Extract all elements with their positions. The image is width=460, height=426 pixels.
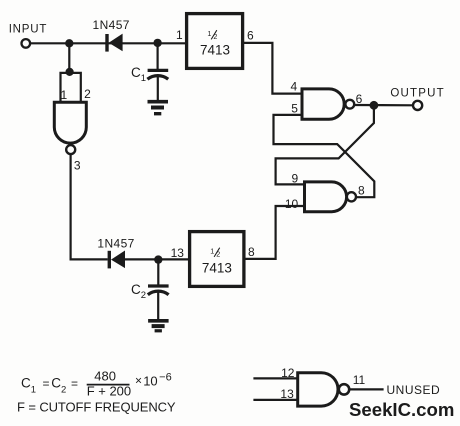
svg-text:8: 8 [248,245,255,259]
svg-text:6: 6 [356,92,363,106]
capacitor C1 [147,43,168,100]
OUTPUT terminal [413,101,422,110]
svg-text:7413: 7413 [200,42,230,57]
diode D2 1N457 [108,251,125,269]
formula C1 = C2 = 480/(F+200) x 10^-6 [21,368,172,398]
wire: input node down to U2a inputs [68,43,70,72]
svg-text:2: 2 [216,250,220,259]
Schmitt trigger U1a (1/2 7413) [187,14,243,69]
svg-text:INPUT: INPUT [9,23,48,35]
svg-text:10: 10 [285,197,299,211]
junction: input node [65,39,73,47]
svg-text:5: 5 [291,102,298,116]
svg-text:UNUSED: UNUSED [387,383,441,397]
svg-text:1N457: 1N457 [93,18,130,32]
wire: D2 to U1b pin 13 [125,258,190,260]
fraction bar [87,384,130,386]
NAND gate U3b [305,182,347,212]
svg-text:3: 3 [74,159,81,173]
wire: U3c output stub [349,388,383,390]
wire: U1a pin 6 to U3a pin 4 [243,43,302,94]
NAND gate U3c (unused) [298,373,338,406]
svg-text:SeekIC.com: SeekIC.com [349,399,454,420]
svg-text:×: × [135,373,142,387]
capacitor C2 [148,260,169,320]
svg-text:13: 13 [171,246,185,260]
wire: U3c pin 12 input stub [253,377,297,379]
svg-text:8: 8 [358,184,365,198]
svg-text:F + 200: F + 200 [87,383,131,398]
svg-text:7413: 7413 [202,260,232,275]
junction: output node [370,101,379,110]
svg-text:1: 1 [210,246,214,255]
wire: U3c pin 13 input stub [253,399,297,401]
junction: U2a input tie [66,68,74,76]
ground (C1) [148,102,169,114]
svg-text:6: 6 [247,28,254,42]
svg-text:4: 4 [291,80,298,94]
Schmitt trigger U1b (1/2 7413) [190,232,244,287]
diode D1 1N457 [105,34,122,52]
wire: input terminal to U1a pin 1 [30,42,186,44]
NAND gate U2a (wired as inverter, pointing down) [54,102,86,143]
label 1/2 7413 (U1a) [200,29,230,57]
svg-text:1N457: 1N457 [97,236,134,250]
svg-text:2: 2 [84,87,91,101]
NAND gate U3a [302,89,344,119]
svg-text:480: 480 [94,368,116,383]
junction: C1 node [153,39,161,47]
INPUT terminal [22,39,31,48]
wire: U1b pin 8 to U3b pin 10 [244,206,305,259]
wire: output node to U3b pin 9 (cross coupling) [276,105,374,184]
wire: U3b pin 8 to U3a pin 5 (cross coupling) [274,115,375,197]
svg-text:OUTPUT: OUTPUT [390,88,444,100]
wire: U2a pin 3 down and right to diode D2 [71,154,108,259]
wire: U2a input bracket (pins 1,2 tied) [61,73,81,103]
svg-text:9: 9 [291,171,298,185]
svg-text:F = CUTOFF FREQUENCY: F = CUTOFF FREQUENCY [17,399,176,414]
svg-text:1: 1 [60,88,67,102]
svg-text:11: 11 [353,373,366,387]
junction: C2 node [154,255,162,263]
svg-text:2: 2 [213,32,217,41]
ground (C2) [148,321,169,331]
svg-text:1: 1 [176,28,183,42]
wire: U3a output to OUTPUT terminal [354,104,413,107]
label 1/2 7413 (U1b) [202,246,232,275]
svg-text:1: 1 [207,29,211,38]
